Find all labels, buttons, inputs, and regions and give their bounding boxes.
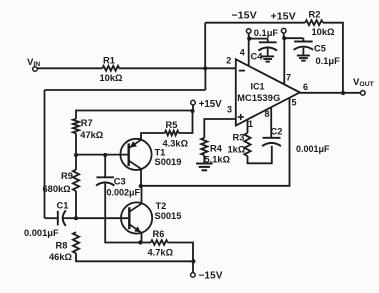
- label R9: [61, 171, 73, 181]
- svg-text:−15V: −15V: [199, 271, 223, 282]
- label T1 part S0019: [155, 157, 182, 167]
- wire op-amp pin 3 to R4: [204, 119, 236, 138]
- resistor R1: [102, 66, 119, 71]
- label C3: [114, 177, 126, 187]
- svg-text:R4: R4: [210, 143, 223, 153]
- wire feedback rail top: [205, 22, 305, 24]
- label R1 value 10k: [100, 73, 124, 83]
- label C1: [57, 201, 69, 211]
- resistor R6: [151, 240, 168, 245]
- label R4: [210, 143, 223, 153]
- label +15V top: [271, 11, 296, 22]
- svg-text:S0019: S0019: [155, 157, 182, 167]
- wire node F to op-amp pin 5: [141, 98, 290, 186]
- capacitor C1: [58, 210, 66, 226]
- wire +15V node to C5: [284, 37, 303, 39]
- label R7: [81, 118, 93, 128]
- wire C1 to node C: [63, 217, 76, 219]
- label R2 value 10k: [312, 27, 336, 37]
- svg-text:T1: T1: [155, 147, 166, 157]
- resistor R5: [165, 131, 179, 136]
- resistor R4: [201, 138, 207, 155]
- label VOUT: [353, 77, 375, 88]
- svg-text:6: 6: [303, 82, 308, 92]
- svg-text:C2: C2: [271, 126, 283, 136]
- label C5 value 0.1uF: [316, 56, 341, 66]
- terminal -15V bottom: [191, 273, 196, 278]
- transistor T2: [121, 202, 152, 233]
- svg-text:680kΩ: 680kΩ: [43, 184, 72, 194]
- node E junction T2 emitter: [138, 240, 142, 244]
- wire +15V terminal stub: [283, 33, 285, 38]
- wire -15V terminal stub: [248, 33, 250, 38]
- svg-text:10kΩ: 10kΩ: [312, 27, 336, 37]
- svg-text:3: 3: [227, 105, 232, 115]
- node J junction -15V: [247, 37, 251, 41]
- label T2 part S0015: [155, 211, 182, 221]
- svg-text:4.3kΩ: 4.3kΩ: [163, 139, 189, 149]
- wire node A up to feedback rail: [204, 23, 206, 69]
- terminal VOUT: [361, 91, 366, 96]
- node A junction at inverting input: [203, 66, 207, 70]
- wire rail corner to R7: [75, 110, 77, 119]
- op-amp plus sign: [238, 114, 244, 120]
- wire op-amp pin 1 to R3: [247, 120, 249, 134]
- svg-text:R6: R6: [153, 229, 165, 239]
- op-amp minus sign: [239, 70, 245, 72]
- wire R3 bottom to C2 bottom: [248, 146, 272, 164]
- transistor T1: [120, 139, 151, 170]
- svg-text:0.1μF: 0.1μF: [316, 56, 341, 66]
- label C1 value 0.001uF: [24, 228, 59, 238]
- label R5 value 4.3k: [163, 139, 189, 149]
- capacitor C2: [262, 138, 281, 146]
- node I junction C3 top: [103, 153, 107, 157]
- svg-text:C3: C3: [114, 177, 126, 187]
- svg-text:1kΩ: 1kΩ: [228, 145, 246, 155]
- ground under C4: [261, 56, 274, 61]
- svg-text:+15V: +15V: [271, 11, 296, 22]
- wire into C1 left plate: [45, 217, 58, 219]
- wire left vertical to C1: [44, 90, 46, 218]
- svg-text:10kΩ: 10kΩ: [100, 73, 124, 83]
- wire node F to T2 collector: [141, 186, 143, 204]
- svg-text:4.7kΩ: 4.7kΩ: [148, 248, 174, 258]
- wire -15V node to op-amp pin 4: [248, 39, 250, 67]
- wire C3 bottom to node E: [105, 184, 140, 243]
- svg-text:C1: C1: [57, 201, 69, 211]
- label C3 value 0.002uF: [107, 188, 141, 198]
- capacitor C4: [258, 39, 277, 51]
- label +15V left: [199, 99, 222, 110]
- wire C5 to ground: [302, 48, 304, 56]
- terminal +15V left: [191, 100, 196, 105]
- svg-text:4: 4: [240, 48, 245, 58]
- resistor R8: [73, 232, 79, 253]
- resistor R2: [305, 20, 323, 25]
- wire node E to R6: [140, 242, 150, 244]
- wire T1 base: [76, 154, 129, 156]
- svg-text:7: 7: [286, 73, 291, 83]
- wire T1 collector to node F: [140, 169, 142, 186]
- capacitor C5: [294, 38, 314, 50]
- pin label 6: [303, 82, 308, 92]
- pin label 7: [286, 73, 291, 83]
- pin label 4: [240, 48, 245, 58]
- wire op-amp output pin 6 to VOUT: [300, 92, 361, 94]
- label C2 value 0.001uF: [296, 144, 330, 154]
- node K junction +15V: [282, 36, 286, 40]
- wire node A down to lower rail: [204, 68, 206, 90]
- svg-text:+15V: +15V: [199, 99, 222, 110]
- wire node C to T2 base: [76, 217, 130, 219]
- wire R9 bottom to node C: [75, 191, 77, 218]
- pin label 5: [292, 98, 297, 108]
- wire lower rail horizontal: [45, 89, 206, 91]
- node B junction at output: [341, 91, 345, 95]
- svg-text:T2: T2: [156, 201, 167, 211]
- op-amp IC1 triangle: [236, 59, 300, 125]
- ground under C5: [297, 56, 310, 61]
- node G junction on +15V rail: [190, 109, 194, 113]
- node D junction at -15V bottom: [191, 259, 195, 263]
- label VIN: [27, 57, 40, 68]
- label C2: [271, 126, 283, 136]
- resistor R7: [73, 119, 79, 134]
- wire +15V terminal stub: [192, 105, 194, 111]
- label R6: [153, 229, 165, 239]
- svg-text:C4: C4: [251, 52, 264, 62]
- label R6 value 4.7k: [148, 248, 174, 258]
- label R2: [309, 10, 321, 20]
- svg-text:R2: R2: [309, 10, 321, 20]
- wire op-amp pin 8 to C2: [270, 108, 272, 138]
- svg-text:R9: R9: [61, 171, 73, 181]
- wire node D to -15V terminal: [192, 261, 194, 272]
- wire R8 to bottom rail: [76, 253, 193, 261]
- label C4 value 0.1uF: [254, 28, 279, 38]
- label R9 value 680k: [43, 184, 72, 194]
- wire -15V node to C4: [249, 38, 267, 40]
- label -15V top: [232, 10, 257, 21]
- label -15V bottom: [199, 271, 223, 282]
- pin label 1: [248, 119, 253, 129]
- svg-text:5: 5: [292, 98, 297, 108]
- label R5: [166, 120, 178, 130]
- node C junction C1/R9/R8/T2 base: [74, 216, 78, 220]
- svg-text:R5: R5: [166, 120, 178, 130]
- svg-text:1: 1: [248, 119, 253, 129]
- wire R4 to ground: [203, 155, 205, 163]
- label MC1539G: [237, 93, 280, 103]
- label IC1: [251, 82, 265, 92]
- label C5: [314, 44, 326, 54]
- svg-text:S0015: S0015: [155, 211, 182, 221]
- svg-text:0.001μF: 0.001μF: [24, 228, 59, 238]
- pin label 3: [227, 105, 232, 115]
- wire node A to op-amp pin 2: [205, 67, 236, 69]
- wire R2 to output node: [323, 23, 343, 93]
- label R3: [233, 133, 245, 143]
- terminal +15V top: [281, 28, 286, 33]
- svg-text:MC1539G: MC1539G: [237, 93, 280, 103]
- resistor R3: [244, 133, 250, 156]
- svg-text:2: 2: [226, 56, 231, 66]
- svg-text:R7: R7: [81, 118, 93, 128]
- label T1: [155, 147, 166, 157]
- svg-text:IC1: IC1: [251, 82, 265, 92]
- label T2: [156, 201, 167, 211]
- terminal -15V top: [246, 29, 251, 34]
- wire R5 to node G: [179, 111, 193, 133]
- svg-text:C5: C5: [314, 44, 326, 54]
- wire +15V rail: [76, 110, 193, 112]
- label C4: [251, 52, 264, 62]
- wire T2 emitter to node E: [141, 233, 143, 243]
- label R8: [56, 241, 68, 251]
- svg-text:R1: R1: [103, 56, 115, 66]
- node H junction T1 base: [74, 153, 78, 157]
- wire +15V node to op-amp pin 7: [283, 38, 285, 84]
- svg-text:8: 8: [265, 109, 270, 119]
- label R8 value 46k: [49, 252, 73, 262]
- svg-text:47kΩ: 47kΩ: [80, 130, 104, 140]
- svg-text:R8: R8: [56, 241, 68, 251]
- wire R1 to node A: [119, 67, 205, 69]
- wire R6 to node D: [168, 243, 193, 262]
- wire VIN to R1: [37, 67, 102, 69]
- label R1: [103, 56, 115, 66]
- pin label 8: [265, 109, 270, 119]
- wire C4 to ground: [267, 49, 269, 57]
- terminal VIN: [33, 67, 38, 72]
- svg-text:R3: R3: [233, 133, 245, 143]
- ground under R4: [196, 164, 213, 171]
- svg-text:0.1μF: 0.1μF: [254, 28, 279, 38]
- pin label 2: [226, 56, 231, 66]
- wire T1 emitter to R5: [141, 133, 165, 140]
- wire R9 top to node H: [75, 155, 77, 170]
- label R7 value 47k: [80, 130, 104, 140]
- resistor R9: [73, 170, 79, 191]
- svg-text:46kΩ: 46kΩ: [49, 252, 73, 262]
- label R4 value 5.1k: [205, 155, 231, 165]
- svg-text:0.001μF: 0.001μF: [296, 144, 330, 154]
- svg-text:−15V: −15V: [232, 10, 257, 21]
- svg-text:0.002μF: 0.002μF: [107, 188, 141, 198]
- capacitor C3: [96, 155, 115, 186]
- node F junction collectors to pin 5: [139, 184, 143, 188]
- wire R7 to node H: [75, 133, 77, 155]
- label R3 value 1k: [228, 145, 246, 155]
